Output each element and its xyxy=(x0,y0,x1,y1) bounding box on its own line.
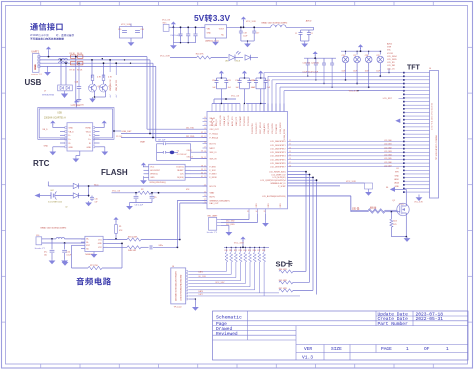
svg-text:1: 1 xyxy=(406,346,409,352)
svg-text:123456789GNDGNDGNDGND: 123456789GNDGNDGNDGND xyxy=(180,274,182,301)
svg-text:GND: GND xyxy=(256,203,258,208)
svg-text:34: 34 xyxy=(256,211,258,213)
svg-text:U5B: U5B xyxy=(57,113,62,115)
svg-text:C26: C26 xyxy=(342,55,345,57)
svg-text:USB: USB xyxy=(25,78,42,87)
svg-text:TFT-LCD-18P-FPC-CONN34: TFT-LCD-18P-FPC-CONN34 xyxy=(436,136,438,160)
svg-text:1: 1 xyxy=(446,346,449,352)
svg-text:R2: R2 xyxy=(141,189,143,191)
svg-text:WINBBUS-NZ_IO: WINBBUS-NZ_IO xyxy=(270,183,286,185)
svg-text:U2: U2 xyxy=(65,207,67,209)
svg-text:LCD_DB4/GPNT4: LCD_DB4/GPNT4 xyxy=(270,156,285,158)
svg-text:R23 1K: R23 1K xyxy=(370,208,377,210)
svg-text:VDD33_USB: VDD33_USB xyxy=(220,115,222,126)
svg-text:DO(IO1): DO(IO1) xyxy=(176,167,184,169)
svg-text:LCD_BL/PWM(IO/GPNT/I4): LCD_BL/PWM(IO/GPNT/I4) xyxy=(262,196,286,198)
svg-text:SDK_IN: SDK_IN xyxy=(210,159,217,161)
svg-text:LCD_WR: LCD_WR xyxy=(387,65,396,67)
svg-text:SIZE: SIZE xyxy=(331,346,342,352)
svg-text:GND: GND xyxy=(69,128,74,130)
svg-text:P_RXD(J): P_RXD(J) xyxy=(210,137,219,139)
svg-text:12345: 12345 xyxy=(35,64,37,70)
svg-text:C29: C29 xyxy=(376,55,379,57)
svg-text:VUSB_DM/D2: VUSB_DM/D2 xyxy=(280,123,282,134)
svg-text:VCC: VCC xyxy=(150,167,155,169)
svg-text:GND: GND xyxy=(395,175,400,177)
svg-text:VOUT: VOUT xyxy=(219,28,225,30)
svg-text:V1.3: V1.3 xyxy=(302,354,313,360)
svg-text:LCD_DB6: LCD_DB6 xyxy=(384,162,392,164)
svg-text:58: 58 xyxy=(201,166,203,168)
svg-text:232_RXD: 232_RXD xyxy=(186,136,195,138)
svg-text:C17: C17 xyxy=(256,33,259,35)
svg-text:R11: R11 xyxy=(229,250,232,252)
svg-text:LCD_DB1: LCD_DB1 xyxy=(384,144,392,146)
svg-text:LCD_RST: LCD_RST xyxy=(383,98,393,100)
svg-text:R10: R10 xyxy=(225,250,228,252)
svg-text:F_MISO: F_MISO xyxy=(210,174,218,176)
svg-text:R12: R12 xyxy=(234,250,237,252)
svg-text:P_TXD(J): P_TXD(J) xyxy=(210,133,219,135)
svg-text:LT2948: LT2948 xyxy=(30,34,39,37)
svg-text:SD: SD xyxy=(276,260,287,269)
svg-text:C5: C5 xyxy=(154,197,156,199)
svg-text:C16: C16 xyxy=(95,199,98,201)
svg-text:R27 1/2R: R27 1/2R xyxy=(279,288,288,290)
svg-text:VbaC: VbaC xyxy=(94,184,99,186)
svg-text:C15: C15 xyxy=(118,29,121,31)
svg-text:PH0/OSCIN1: PH0/OSCIN1 xyxy=(252,123,254,134)
svg-text:BOOT1: BOOT1 xyxy=(210,143,216,145)
svg-text:PH1/OSOUT2: PH1/OSOUT2 xyxy=(256,123,258,134)
svg-text:10uF: 10uF xyxy=(353,71,357,73)
svg-text:C11: C11 xyxy=(227,80,230,82)
svg-text:VB_D: VB_D xyxy=(69,131,75,133)
svg-text:LCD_DB0: LCD_DB0 xyxy=(384,140,392,142)
svg-text:VCOM: VCOM xyxy=(387,53,393,55)
svg-text:VB_D: VB_D xyxy=(86,131,92,133)
svg-text:GND: GND xyxy=(280,203,282,208)
svg-text:4u7: 4u7 xyxy=(110,95,112,98)
svg-text:R25 1/2R: R25 1/2R xyxy=(279,280,288,282)
svg-text:GND: GND xyxy=(395,186,400,188)
svg-text:VB_P: VB_P xyxy=(210,121,216,123)
svg-text:5V: 5V xyxy=(194,13,205,23)
svg-text:R4B 24R: R4B 24R xyxy=(128,250,137,252)
svg-text:232_RXD: 232_RXD xyxy=(226,224,235,226)
svg-text:PC14/OS32: PC14/OS32 xyxy=(244,116,246,126)
svg-text:F_MOSI: F_MOSI xyxy=(210,177,218,179)
svg-text:LCD_BL: LCD_BL xyxy=(352,209,360,211)
svg-text:OSC_IN: OSC_IN xyxy=(210,125,218,127)
svg-text:NRST_MCLR1: NRST_MCLR1 xyxy=(260,122,262,134)
svg-text:LED: LED xyxy=(225,61,229,63)
svg-text:Drawed: Drawed xyxy=(216,326,233,332)
svg-text:IN+: IN+ xyxy=(86,239,89,241)
svg-text:Header 1*3: Header 1*3 xyxy=(207,232,218,234)
svg-text:C6 0.1uF: C6 0.1uF xyxy=(135,205,144,207)
svg-text:R17: R17 xyxy=(257,250,260,252)
svg-text:B47: B47 xyxy=(51,190,54,192)
svg-text:VGH: VGH xyxy=(387,47,392,49)
svg-text:LCD_DB3: LCD_DB3 xyxy=(384,151,392,153)
svg-text:LCD_DB0/GPNT0: LCD_DB0/GPNT0 xyxy=(270,141,285,143)
svg-text:VSS_IO: VSS_IO xyxy=(216,119,218,126)
svg-text:PAGE: PAGE xyxy=(381,346,392,352)
svg-text:VCC_3.3V: VCC_3.3V xyxy=(215,282,225,284)
svg-text:TFT: TFT xyxy=(407,65,421,72)
svg-text:LCD_DB15: LCD_DB15 xyxy=(387,59,397,61)
svg-text:C16: C16 xyxy=(141,29,144,31)
svg-text:C10: C10 xyxy=(67,251,70,253)
svg-text:59: 59 xyxy=(201,169,203,171)
svg-text:RESET: RESET xyxy=(177,170,184,172)
svg-text:C14: C14 xyxy=(252,80,255,82)
svg-text:LCD_DB1/GPNT1: LCD_DB1/GPNT1 xyxy=(270,145,285,147)
svg-text:LCD_DB2: LCD_DB2 xyxy=(384,147,392,149)
svg-text:DI(IO0): DI(IO0) xyxy=(177,177,184,179)
svg-text:C18: C18 xyxy=(243,33,246,35)
svg-text:470: 470 xyxy=(393,224,396,226)
svg-text:5Vin: 5Vin xyxy=(163,22,167,24)
svg-text:VCC_3.3V: VCC_3.3V xyxy=(121,24,131,26)
svg-text:GND: GND xyxy=(87,147,92,149)
svg-text:F_NSS: F_NSS xyxy=(210,167,217,169)
svg-text:VCC_3.3V: VCC_3.3V xyxy=(414,201,423,203)
svg-text:C10: C10 xyxy=(212,80,215,82)
svg-text:Reviewed: Reviewed xyxy=(216,331,238,337)
svg-text:2023-07-18: 2023-07-18 xyxy=(416,311,444,317)
svg-text:W25Q128JVSIQ: W25Q128JVSIQ xyxy=(150,182,166,184)
svg-text:24Ru: 24Ru xyxy=(159,245,164,247)
svg-text:2022-05-31: 2022-05-31 xyxy=(416,316,444,322)
svg-text:PC15/OS32: PC15/OS32 xyxy=(248,116,250,126)
svg-text:16v: 16v xyxy=(44,254,47,256)
svg-text:LCD_DNRF_IO2: LCD_DNRF_IO2 xyxy=(271,174,285,176)
svg-text:LCD_CS: LCD_CS xyxy=(387,68,395,70)
svg-text:NRST: NRST xyxy=(210,148,216,150)
svg-text:LCD_DB3/GPNT3: LCD_DB3/GPNT3 xyxy=(270,152,285,154)
svg-text:VCC_3.3V: VCC_3.3V xyxy=(160,55,170,57)
svg-text:C27: C27 xyxy=(353,55,356,57)
svg-text:BOOT0: BOOT0 xyxy=(210,186,216,188)
svg-text:FLASH: FLASH xyxy=(101,168,128,177)
svg-text:R8 1K: R8 1K xyxy=(77,70,83,72)
svg-text:RT1 25K: RT1 25K xyxy=(90,265,99,267)
svg-text:OSC_I: OSC_I xyxy=(187,150,193,152)
svg-text:4u7: 4u7 xyxy=(116,95,118,98)
svg-text:R6 1K: R6 1K xyxy=(77,53,83,55)
svg-text:C28: C28 xyxy=(365,55,368,57)
svg-text:VCC_3.3: VCC_3.3 xyxy=(231,95,240,97)
svg-text:LCD_DB14: LCD_DB14 xyxy=(387,56,397,58)
svg-text:R15: R15 xyxy=(248,250,251,252)
svg-text:SDK_IO: SDK_IO xyxy=(210,152,217,154)
svg-text:VCC_3.3V: VCC_3.3V xyxy=(234,242,244,244)
svg-text:232_TXD: 232_TXD xyxy=(186,128,195,130)
svg-text:R18: R18 xyxy=(262,250,265,252)
svg-text:OSC_O: OSC_O xyxy=(187,157,194,159)
svg-text:61: 61 xyxy=(201,176,203,178)
svg-text:LEDK: LEDK xyxy=(394,179,400,181)
svg-text:VO1: VO1 xyxy=(98,239,102,241)
svg-text:VCC_3.3V: VCC_3.3V xyxy=(346,181,356,183)
svg-text:GND: GND xyxy=(69,147,74,149)
svg-text:Header 1*2: Header 1*2 xyxy=(35,248,46,250)
svg-text:USB_DM 232: USB_DM 232 xyxy=(110,79,112,91)
svg-text:C8 .1uF: C8 .1uF xyxy=(158,140,166,142)
svg-text:232_TXD: 232_TXD xyxy=(226,220,235,222)
svg-text:P_3CNP: P_3CNP xyxy=(278,186,286,188)
svg-text:R26 1/2R: R26 1/2R xyxy=(279,269,288,271)
svg-text:10uF: 10uF xyxy=(365,71,369,73)
svg-text:10uF: 10uF xyxy=(342,71,346,73)
svg-text:LCD_DB4: LCD_DB4 xyxy=(384,155,392,157)
svg-text:VCC_3.3: VCC_3.3 xyxy=(112,190,121,192)
svg-text:GND: GND xyxy=(150,177,155,179)
svg-text:WP(IO2): WP(IO2) xyxy=(150,174,158,176)
svg-text:R20 47K: R20 47K xyxy=(196,54,204,56)
svg-text:VSS_IO2/PB: VSS_IO2/PB xyxy=(272,123,274,134)
svg-text:R7 1K: R7 1K xyxy=(70,70,76,72)
svg-text:VO2: VO2 xyxy=(98,247,102,249)
svg-text:VGL: VGL xyxy=(387,50,391,52)
svg-text:HOLD/RST: HOLD/RST xyxy=(150,170,160,172)
svg-text:1 3 5 7 9 11 13 15 17 19 21 23: 1 3 5 7 9 11 13 15 17 19 21 23 25 xyxy=(432,103,434,130)
svg-text:LCD_DB7/GPNT7: LCD_DB7/GPNT7 xyxy=(270,167,285,169)
svg-text:LCD_C(W/P)NYO(IO/GPNT)4: LCD_C(W/P)NYO(IO/GPNT)4 xyxy=(260,180,285,182)
svg-text:VCC_3.3V: VCC_3.3V xyxy=(246,21,256,23)
svg-text:LTD-B: LTD-B xyxy=(235,61,241,63)
svg-text:LCD_DB7: LCD_DB7 xyxy=(384,165,392,167)
svg-text:BL: BL xyxy=(386,187,388,189)
svg-text:C20 C21 C24 C25: C20 C21 C24 C25 xyxy=(303,62,320,64)
svg-text:R13: R13 xyxy=(239,250,242,252)
svg-text:33: 33 xyxy=(247,211,249,213)
svg-text:LCD_DB2/GPNT2: LCD_DB2/GPNT2 xyxy=(270,148,285,150)
svg-text:RT0 100R: RT0 100R xyxy=(128,236,138,238)
svg-text:RTC: RTC xyxy=(33,159,50,168)
svg-text:IN-: IN- xyxy=(86,242,89,244)
svg-text:VDD_IO2/PB: VDD_IO2/PB xyxy=(268,123,270,134)
svg-text:LCD_DB5/GPNT5: LCD_DB5/GPNT5 xyxy=(270,159,285,161)
svg-text:VB_D: VB_D xyxy=(42,129,48,131)
svg-text:Schematic: Schematic xyxy=(216,314,242,320)
svg-text:Create Date: Create Date xyxy=(378,316,409,322)
svg-text:VCC_3.3V: VCC_3.3V xyxy=(349,91,359,93)
svg-text:R5 1K: R5 1K xyxy=(70,53,76,55)
svg-text:OSC_OUT: OSC_OUT xyxy=(210,129,220,131)
svg-text:LCD_NLPF(IO): LCD_NLPF(IO) xyxy=(273,177,286,179)
svg-text:Part Number: Part Number xyxy=(378,321,409,327)
svg-text:47u: 47u xyxy=(44,251,47,253)
svg-text:LCD_DB5: LCD_DB5 xyxy=(384,158,392,160)
svg-text:VCC_5V: VCC_5V xyxy=(162,20,171,22)
svg-text:LCD_RDWR_N(IO): LCD_RDWR_N(IO) xyxy=(269,172,286,174)
svg-text:USB_DET: USB_DET xyxy=(122,131,133,133)
svg-text:R1: R1 xyxy=(119,226,121,228)
svg-text:LCD_RS: LCD_RS xyxy=(387,62,395,64)
svg-text:D-: D- xyxy=(89,135,91,137)
svg-text:3.3V: 3.3V xyxy=(213,13,231,23)
svg-text:1uF: 1uF xyxy=(95,202,98,204)
svg-text:VB_M: VB_M xyxy=(210,118,216,120)
svg-text:VER: VER xyxy=(304,346,312,352)
svg-text:R24: R24 xyxy=(393,221,396,223)
svg-text:VREF_PLUS: VREF_PLUS xyxy=(228,115,230,126)
svg-text:GND: GND xyxy=(207,32,212,34)
svg-text:3.0v/CR/BR 1220: 3.0v/CR/BR 1220 xyxy=(48,201,62,203)
svg-text:OF: OF xyxy=(424,346,430,352)
svg-text:60: 60 xyxy=(201,173,203,175)
svg-text:LCD_DB6/GPNT6: LCD_DB6/GPNT6 xyxy=(270,163,285,165)
svg-text:GND: GND xyxy=(268,203,270,208)
svg-text:SD_CMD: SD_CMD xyxy=(198,276,206,278)
svg-text:Update Date: Update Date xyxy=(378,311,409,317)
svg-text:35: 35 xyxy=(264,211,266,213)
svg-text:USB_DP 232: USB_DP 232 xyxy=(116,80,118,91)
svg-text:C12: C12 xyxy=(235,80,238,82)
svg-text:GND: GND xyxy=(98,243,103,245)
svg-text:VUSB_DP/D2: VUSB_DP/D2 xyxy=(284,129,286,140)
svg-text:VCC_3.3V: VCC_3.3V xyxy=(71,105,81,107)
svg-text:C1: C1 xyxy=(295,33,297,35)
svg-text:32.768KHZ: 32.768KHZ xyxy=(177,154,188,156)
svg-text:BUTN: BUTN xyxy=(210,196,216,198)
svg-text:10uF: 10uF xyxy=(376,71,380,73)
svg-text:F_SCK: F_SCK xyxy=(210,170,217,172)
svg-text:C2: C2 xyxy=(311,33,313,35)
svg-text:0.1uF 0.1uF 0.1uF: 0.1uF 0.1uF 0.1uF xyxy=(303,71,319,73)
svg-text:R14: R14 xyxy=(243,250,246,252)
svg-text:D-: D- xyxy=(69,135,71,137)
svg-text:VGND: VGND xyxy=(85,128,91,130)
svg-text:R16: R16 xyxy=(253,250,256,252)
svg-text:GND: GND xyxy=(44,145,49,147)
svg-text:Page: Page xyxy=(216,321,227,327)
